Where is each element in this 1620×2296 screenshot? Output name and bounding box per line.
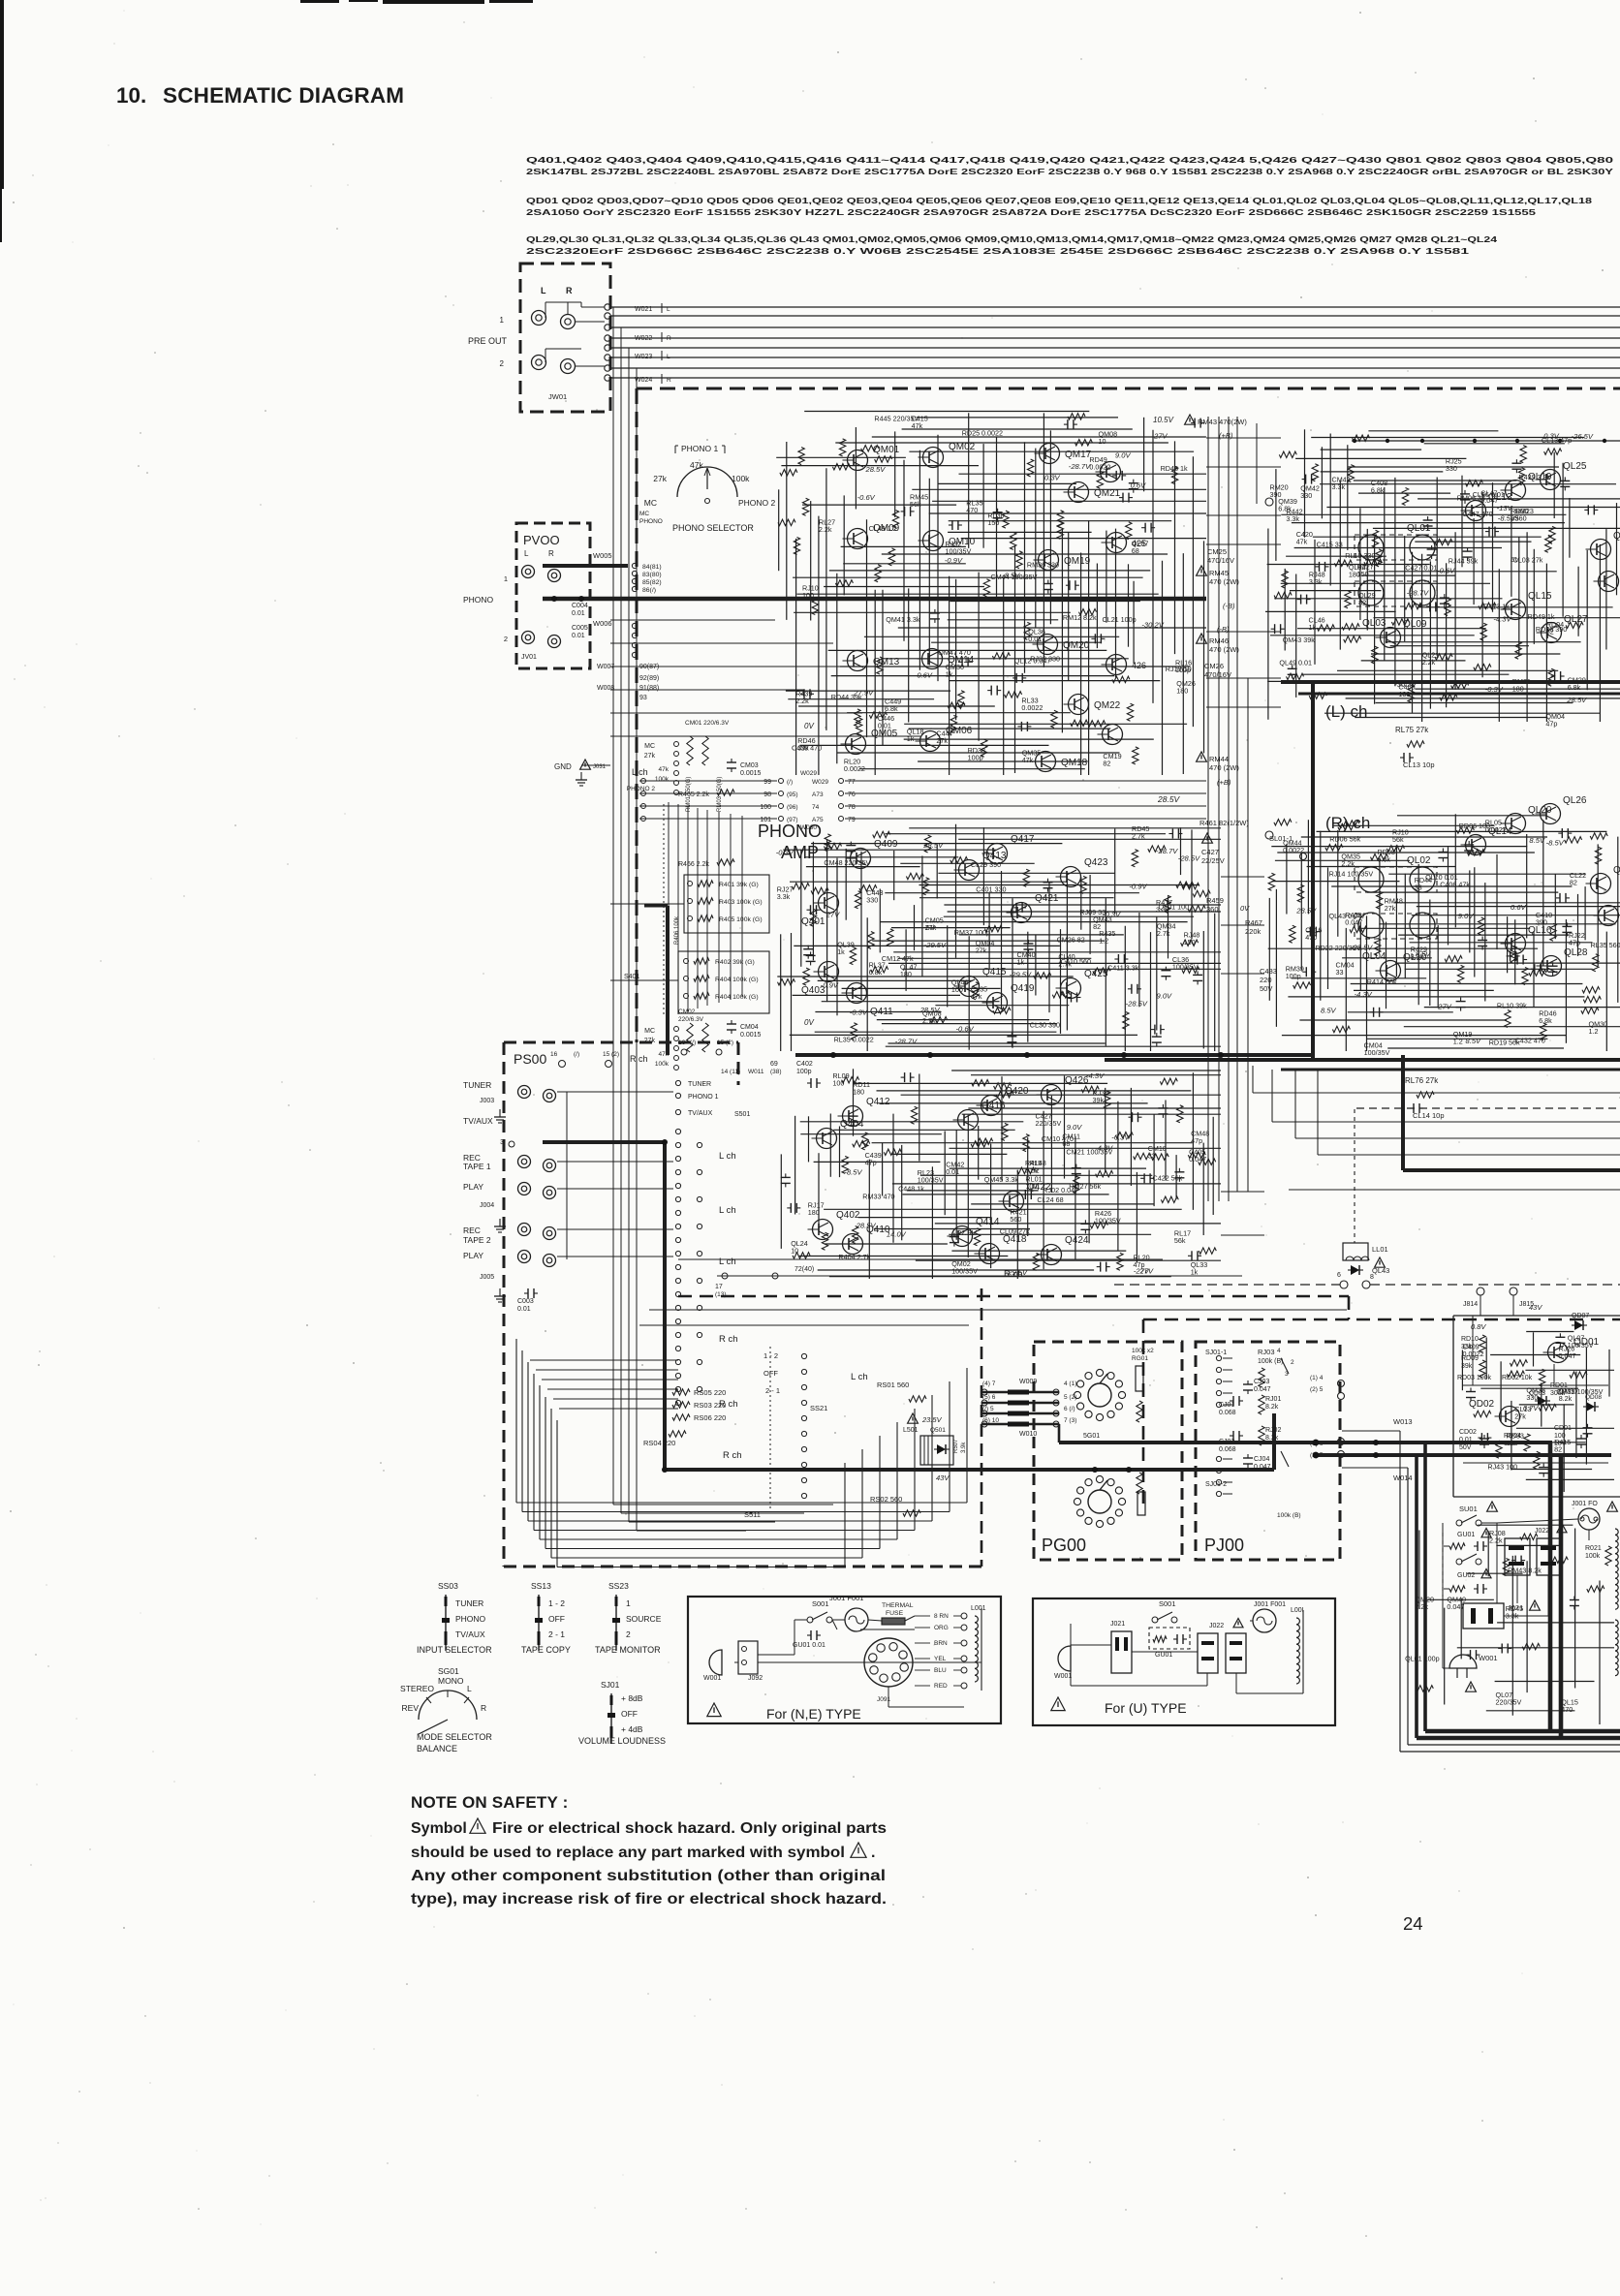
svg-text:C427 0.01: C427 0.01	[1405, 564, 1437, 573]
svg-text:27k: 27k	[976, 946, 987, 955]
svg-text:Q412: Q412	[866, 1097, 890, 1107]
svg-text:RM12 8.2k: RM12 8.2k	[1063, 613, 1097, 622]
svg-text:2SC2320EorF 2SD666C: 2SC2320EorF 2SD666C 2SB646C 2SC2238 0.Y …	[526, 246, 1469, 256]
svg-text:-4.3V: -4.3V	[1355, 990, 1373, 999]
svg-text:8.5V: 8.5V	[1321, 1006, 1337, 1014]
svg-text:OFF: OFF	[548, 1614, 565, 1624]
svg-text:22/25V: 22/25V	[1201, 856, 1225, 865]
svg-text:TUNER: TUNER	[455, 1598, 483, 1608]
svg-text:C406 47k: C406 47k	[1440, 880, 1470, 888]
svg-text:R459: R459	[1206, 896, 1224, 905]
svg-text:RG01: RG01	[1132, 1355, 1148, 1362]
svg-text:9.0V: 9.0V	[1067, 1123, 1083, 1132]
svg-text:82: 82	[1103, 760, 1110, 768]
svg-text:R413 1k: R413 1k	[1483, 603, 1510, 611]
svg-text:-28.5V: -28.5V	[1351, 944, 1373, 952]
svg-text:(6) 10: (6) 10	[982, 1417, 999, 1424]
svg-text:Q419: Q419	[1011, 983, 1035, 994]
svg-text:CM48 220/35V: CM48 220/35V	[824, 858, 870, 867]
svg-text:180: 180	[900, 970, 912, 978]
svg-text:47k: 47k	[659, 766, 670, 773]
svg-text:33: 33	[1415, 883, 1422, 891]
svg-text:RD48 1k: RD48 1k	[1161, 464, 1188, 473]
svg-text:R406 100k: R406 100k	[674, 915, 680, 945]
svg-text:-0.3V: -0.3V	[776, 848, 794, 856]
svg-text:W013: W013	[1393, 1417, 1413, 1426]
svg-text:470: 470	[966, 506, 978, 514]
svg-text:56k: 56k	[1174, 1236, 1186, 1245]
svg-text:CJ01: CJ01	[1219, 1402, 1234, 1409]
svg-text:S511: S511	[744, 1510, 761, 1519]
svg-text:8 RN: 8 RN	[934, 1613, 949, 1620]
svg-text:27V: 27V	[1153, 432, 1168, 441]
svg-text:R402 39k (G): R402 39k (G)	[715, 959, 755, 966]
svg-text:REC: REC	[463, 1226, 481, 1235]
svg-text:10: 10	[1099, 437, 1106, 446]
svg-text:180: 180	[853, 1087, 864, 1096]
svg-text:RJ02: RJ02	[1265, 1427, 1281, 1434]
svg-text:MC: MC	[639, 511, 649, 517]
svg-text:-26.5V: -26.5V	[1572, 432, 1594, 441]
svg-text:C427: C427	[1201, 848, 1219, 856]
svg-text:W029: W029	[812, 779, 828, 786]
svg-text:JW01: JW01	[548, 392, 567, 401]
svg-text:-29.5V: -29.5V	[924, 941, 947, 949]
svg-text:W022-: W022-	[635, 335, 655, 342]
svg-text:330: 330	[1300, 491, 1312, 500]
svg-text:1: 1	[504, 574, 508, 583]
svg-text:0V: 0V	[804, 1018, 814, 1027]
svg-text:9.0V: 9.0V	[1157, 992, 1173, 1001]
svg-text:QL30: QL30	[1613, 865, 1620, 876]
svg-text:CL24 68: CL24 68	[1037, 1195, 1063, 1204]
svg-text:78: 78	[848, 804, 856, 811]
svg-text:W011: W011	[748, 1069, 764, 1075]
svg-text:-0.6V: -0.6V	[1437, 567, 1455, 575]
svg-text:QM22: QM22	[1094, 700, 1121, 711]
svg-text:(5) 6: (5) 6	[982, 1394, 996, 1401]
svg-text:PHONO: PHONO	[455, 1614, 486, 1624]
svg-text:2.2k: 2.2k	[819, 525, 832, 534]
svg-text:C447 470: C447 470	[1462, 510, 1492, 518]
svg-text:1.2: 1.2	[1589, 1027, 1599, 1036]
svg-text:S501: S501	[734, 1111, 750, 1118]
svg-text:90(87): 90(87)	[639, 664, 659, 670]
svg-text:TV/AUX: TV/AUX	[463, 1116, 493, 1126]
svg-text:QM41 3.3k: QM41 3.3k	[886, 615, 920, 624]
svg-text:R: R	[548, 549, 554, 558]
svg-text:R461 82(1/2W): R461 82(1/2W)	[1199, 819, 1249, 827]
svg-text:CM25: CM25	[1207, 547, 1227, 556]
svg-text:0.01: 0.01	[517, 1306, 531, 1313]
svg-text:3.9k: 3.9k	[961, 1442, 967, 1453]
svg-text:2: 2	[626, 1629, 631, 1639]
svg-text:J022: J022	[1209, 1623, 1224, 1629]
svg-text:4: 4	[1277, 1348, 1281, 1354]
svg-text:100: 100	[951, 985, 963, 994]
svg-text:R414 56k: R414 56k	[1367, 977, 1397, 986]
svg-text:R404 100k (G): R404 100k (G)	[715, 977, 759, 983]
svg-text:W021: W021	[635, 306, 652, 313]
svg-text:82: 82	[1570, 879, 1577, 887]
svg-text:8.5V: 8.5V	[1466, 1037, 1482, 1045]
svg-text:-0.9V: -0.9V	[945, 556, 963, 565]
svg-text:100k (B): 100k (B)	[1277, 1512, 1301, 1519]
svg-text:(4) 7: (4) 7	[982, 1381, 996, 1387]
svg-text:CL13 10p: CL13 10p	[1403, 760, 1435, 769]
svg-text:CL30 390: CL30 390	[1030, 1020, 1060, 1029]
svg-text:J814: J814	[1463, 1301, 1478, 1308]
svg-text:CL09 27k: CL09 27k	[1000, 1227, 1030, 1236]
svg-text:220/35V: 220/35V	[1496, 1698, 1522, 1707]
svg-text:100p: 100p	[1286, 972, 1301, 980]
svg-text:390: 390	[1536, 918, 1547, 927]
svg-text:L: L	[467, 1684, 472, 1693]
svg-text:(/): (/)	[787, 779, 793, 786]
svg-text:.: .	[871, 1845, 875, 1861]
svg-text:R: R	[566, 286, 573, 295]
svg-text:SOURCE: SOURCE	[626, 1614, 662, 1624]
svg-text:(R) ch: (R) ch	[1325, 814, 1370, 832]
svg-text:QL15: QL15	[1528, 591, 1552, 602]
svg-text:PHONO: PHONO	[463, 595, 494, 605]
svg-text:82: 82	[1093, 922, 1101, 931]
svg-text:MONO: MONO	[438, 1676, 464, 1686]
svg-text:100/35V: 100/35V	[951, 1267, 978, 1276]
svg-text:-4.3V: -4.3V	[1493, 615, 1511, 624]
svg-text:W005: W005	[593, 551, 612, 560]
svg-text:-28.7V: -28.7V	[1156, 847, 1178, 855]
svg-text:L ch: L ch	[719, 1257, 736, 1267]
svg-text:Fire or electrical shock hazar: Fire or electrical shock hazard. Only or…	[492, 1820, 887, 1837]
svg-text:17: 17	[715, 1284, 723, 1290]
svg-text:C401 330: C401 330	[976, 884, 1006, 893]
svg-text:27k: 27k	[1514, 1412, 1526, 1421]
svg-text:3.3k: 3.3k	[1332, 482, 1346, 491]
svg-text:6.8k: 6.8k	[869, 968, 883, 977]
svg-text:99: 99	[763, 779, 771, 786]
svg-text:W024: W024	[635, 377, 652, 384]
svg-text:27V: 27V	[826, 911, 840, 919]
svg-text:82: 82	[1554, 1444, 1562, 1453]
svg-text:PHONO SELECTOR: PHONO SELECTOR	[672, 523, 754, 533]
svg-text:MC: MC	[644, 743, 655, 750]
svg-text:SU01: SU01	[1459, 1505, 1478, 1513]
svg-text:100k (B): 100k (B)	[1258, 1358, 1283, 1365]
svg-text:(/): (/)	[574, 1051, 579, 1058]
svg-text:CM12 47k: CM12 47k	[882, 954, 914, 963]
svg-text:470: 470	[1305, 933, 1317, 942]
svg-text:0.068: 0.068	[1219, 1446, 1236, 1453]
svg-text:28.5V: 28.5V	[865, 465, 887, 474]
svg-text:0.0022: 0.0022	[1089, 462, 1110, 471]
svg-text:L: L	[667, 306, 670, 313]
svg-text:(1) 4: (1) 4	[1310, 1375, 1324, 1381]
svg-text:(L) ch: (L) ch	[1325, 702, 1367, 721]
svg-text:J092: J092	[748, 1675, 763, 1682]
svg-text:QD07: QD07	[1572, 1313, 1589, 1319]
svg-text:6.8k: 6.8k	[1539, 1016, 1552, 1025]
svg-text:2.2k: 2.2k	[795, 697, 809, 705]
svg-text:SJ01-1: SJ01-1	[1205, 1350, 1227, 1356]
svg-text:L: L	[541, 286, 546, 295]
svg-text:1k: 1k	[1191, 1268, 1199, 1277]
svg-text:J001 FO: J001 FO	[1572, 1501, 1598, 1507]
svg-text:RM33 470: RM33 470	[862, 1192, 894, 1200]
svg-text:C422 56k: C422 56k	[1153, 1174, 1183, 1183]
svg-text:1k: 1k	[837, 947, 845, 956]
svg-text:1 - 2: 1 - 2	[548, 1598, 565, 1608]
svg-text:TUNER: TUNER	[688, 1081, 711, 1088]
svg-text:W008: W008	[597, 685, 614, 692]
svg-text:(13): (13)	[715, 1291, 727, 1298]
svg-text:68: 68	[1132, 546, 1139, 555]
svg-text:BALANCE: BALANCE	[417, 1744, 457, 1753]
svg-text:QL01 100p: QL01 100p	[1405, 1655, 1440, 1663]
svg-text:2.7k: 2.7k	[1157, 929, 1170, 938]
svg-text:27k: 27k	[653, 474, 667, 483]
svg-text:Q424: Q424	[1065, 1235, 1089, 1246]
svg-text:390: 390	[1270, 490, 1282, 499]
svg-text:QL26: QL26	[1563, 795, 1587, 806]
svg-text:RM06 33: RM06 33	[1457, 494, 1485, 503]
svg-text:0.01: 0.01	[946, 1167, 959, 1176]
svg-text:TAPE 2: TAPE 2	[463, 1235, 491, 1245]
svg-text:3.3k: 3.3k	[1309, 577, 1323, 586]
svg-text:-8.5V: -8.5V	[1546, 838, 1565, 847]
svg-text:PLAY: PLAY	[463, 1251, 483, 1260]
svg-text:-0.3V: -0.3V	[850, 1008, 868, 1016]
svg-text:ORG: ORG	[934, 1625, 949, 1631]
svg-text:PHONO: PHONO	[758, 822, 822, 841]
svg-text:L00I: L00I	[1291, 1607, 1304, 1614]
svg-text:220: 220	[1260, 976, 1272, 984]
svg-text:3: 3	[1285, 1371, 1289, 1378]
svg-text:-29.5V: -29.5V	[1010, 971, 1032, 979]
svg-text:MODE SELECTOR: MODE SELECTOR	[417, 1732, 492, 1742]
svg-text:28.5V: 28.5V	[919, 1006, 941, 1014]
svg-text:R ch: R ch	[630, 1054, 648, 1064]
svg-text:470 (2W): 470 (2W)	[1209, 577, 1239, 586]
svg-text:-28.7V: -28.7V	[1069, 462, 1091, 471]
svg-text:RL15 330: RL15 330	[1345, 551, 1375, 560]
svg-text:CM04: CM04	[740, 1024, 759, 1031]
svg-text:L ch: L ch	[632, 767, 648, 777]
svg-text:R507: R507	[953, 1439, 959, 1453]
svg-text:0V: 0V	[804, 722, 814, 730]
svg-text:47k: 47k	[971, 992, 982, 1001]
svg-text:THERMAL: THERMAL	[882, 1602, 914, 1609]
svg-text:360: 360	[1206, 905, 1219, 914]
svg-text:RD25 0.0022: RD25 0.0022	[962, 429, 1003, 438]
svg-text:83(80): 83(80)	[642, 572, 662, 578]
svg-text:180: 180	[1512, 685, 1524, 694]
svg-text:CL14 10p: CL14 10p	[1413, 1111, 1445, 1120]
svg-text:STEREO: STEREO	[400, 1684, 434, 1693]
svg-text:28.5V: 28.5V	[856, 1222, 877, 1230]
svg-text:-0.3V: -0.3V	[1111, 1133, 1130, 1142]
svg-text:43V: 43V	[936, 1474, 950, 1482]
svg-text:RED: RED	[934, 1683, 948, 1690]
svg-text:27V: 27V	[1139, 1267, 1154, 1276]
svg-text:47p: 47p	[1569, 938, 1580, 946]
svg-text:W001: W001	[1054, 1673, 1072, 1680]
svg-text:0.01: 0.01	[1459, 1437, 1473, 1443]
svg-text:GU01 0.01: GU01 0.01	[793, 1642, 826, 1649]
svg-text:W007: W007	[597, 664, 614, 670]
svg-text:100k: 100k	[732, 474, 750, 483]
svg-text:GND: GND	[554, 762, 572, 771]
svg-text:J004: J004	[480, 1202, 494, 1209]
svg-text:0.6V: 0.6V	[1131, 481, 1147, 490]
svg-text:0.0015: 0.0015	[740, 1032, 762, 1039]
svg-text:type), may increase risk o: type), may increase risk of fire or elec…	[411, 1891, 887, 1908]
svg-text:RD02 10k: RD02 10k	[1502, 1375, 1533, 1381]
svg-text:R ch: R ch	[719, 1334, 738, 1345]
svg-text:SS03: SS03	[438, 1581, 458, 1591]
svg-text:Q414: Q414	[976, 1217, 1000, 1227]
svg-text:47k: 47k	[1296, 537, 1308, 545]
svg-text:C433: C433	[1260, 967, 1277, 976]
svg-text:3: 3	[500, 1139, 504, 1146]
svg-text:CM01 220/6.3V: CM01 220/6.3V	[685, 720, 730, 727]
svg-text:330: 330	[1526, 1393, 1538, 1402]
svg-text:PHONO 1: PHONO 1	[688, 1094, 719, 1101]
svg-text:-8.5V: -8.5V	[1002, 572, 1020, 580]
svg-text:RL35 560: RL35 560	[1591, 941, 1620, 949]
svg-text:2SK147BL 2SJ72BL 2SC: 2SK147BL 2SJ72BL 2SC2240BL 2SA970BL 2SA8…	[526, 167, 1613, 176]
svg-text:QM45 3.3k: QM45 3.3k	[984, 1175, 1019, 1184]
svg-text:Any other component substit: Any other component substitution (other …	[411, 1868, 886, 1884]
svg-text:TAPE COPY: TAPE COPY	[521, 1645, 571, 1655]
svg-text:Symbol: Symbol	[411, 1820, 467, 1837]
svg-text:76: 76	[848, 791, 856, 798]
svg-text:SL01-1: SL01-1	[1269, 834, 1293, 843]
svg-text:QL28: QL28	[1564, 947, 1588, 958]
svg-text:J021: J021	[1508, 1603, 1523, 1612]
svg-text:1k: 1k	[946, 670, 953, 679]
svg-text:100/35V: 100/35V	[1095, 1216, 1121, 1225]
svg-text:RJ01: RJ01	[1265, 1396, 1281, 1403]
svg-text:JV01: JV01	[521, 654, 537, 661]
svg-text:L001: L001	[971, 1605, 986, 1612]
svg-text:RM36 330: RM36 330	[1027, 560, 1059, 569]
svg-text:2.7k: 2.7k	[1058, 960, 1072, 969]
svg-text:6.8k: 6.8k	[885, 704, 898, 713]
svg-text:27k: 27k	[644, 753, 656, 760]
svg-text:2: 2	[1291, 1359, 1294, 1366]
svg-text:9.0V: 9.0V	[1115, 451, 1132, 460]
svg-text:69: 69	[770, 1061, 778, 1068]
svg-text:RS04 220: RS04 220	[643, 1439, 675, 1447]
svg-text:0.0015: 0.0015	[740, 770, 762, 777]
svg-text:Q421: Q421	[1035, 893, 1059, 904]
svg-text:39k: 39k	[797, 744, 809, 753]
svg-text:CM26 82: CM26 82	[1057, 936, 1085, 945]
svg-text:W006: W006	[593, 619, 612, 628]
svg-text:S001: S001	[1159, 1599, 1176, 1608]
svg-text:(2) 5: (2) 5	[1310, 1386, 1324, 1393]
svg-text:9.0V: 9.0V	[1458, 912, 1475, 920]
svg-text:16: 16	[550, 1051, 558, 1058]
svg-text:CJ03: CJ03	[1254, 1379, 1269, 1385]
svg-text:56k: 56k	[1392, 835, 1404, 844]
svg-text:27k: 27k	[925, 923, 937, 932]
svg-text:Q415: Q415	[982, 967, 1007, 977]
svg-text:-30.2V: -30.2V	[1141, 620, 1164, 629]
svg-text:QM02: QM02	[949, 442, 976, 452]
svg-text:R404 2.7k: R404 2.7k	[838, 1253, 870, 1261]
svg-text:PHONO: PHONO	[639, 518, 663, 525]
svg-text:100/35V: 100/35V	[1568, 1341, 1594, 1350]
svg-text:150: 150	[1357, 570, 1369, 578]
svg-text:84(81): 84(81)	[642, 564, 662, 571]
svg-text:2.7k: 2.7k	[922, 1016, 936, 1025]
svg-text:RJ03: RJ03	[1258, 1348, 1275, 1356]
svg-text:10.5V: 10.5V	[1153, 416, 1174, 424]
svg-text:33: 33	[1148, 1151, 1156, 1160]
svg-text:8.2k: 8.2k	[1265, 1435, 1279, 1442]
svg-text:0.0022: 0.0022	[1485, 825, 1507, 834]
svg-text:TAPE 1: TAPE 1	[463, 1162, 491, 1171]
svg-text:0.047: 0.047	[1189, 1155, 1206, 1164]
svg-text:J001 F001: J001 F001	[1254, 1601, 1286, 1608]
svg-text:98: 98	[763, 791, 771, 798]
svg-text:RJ44 39k: RJ44 39k	[1449, 557, 1479, 566]
svg-text:1 - 2: 1 - 2	[763, 1351, 778, 1360]
svg-text:0.01: 0.01	[878, 722, 891, 730]
svg-text:RJ19 10: RJ19 10	[1166, 665, 1192, 673]
svg-text:8.2k: 8.2k	[1265, 1404, 1279, 1411]
svg-text:CD02: CD02	[1459, 1429, 1477, 1436]
svg-text:100p: 100p	[968, 754, 983, 762]
svg-text:RS05 220: RS05 220	[694, 1388, 726, 1397]
svg-text:C411 3.3k: C411 3.3k	[1107, 963, 1139, 972]
svg-text:C005: C005	[572, 625, 588, 632]
svg-text:2: 2	[504, 635, 508, 643]
svg-text:C004: C004	[572, 603, 588, 609]
svg-text:Q402: Q402	[836, 1210, 860, 1221]
svg-text:Q423: Q423	[1084, 857, 1108, 868]
svg-text:W023: W023	[635, 354, 652, 360]
svg-text:47k: 47k	[1022, 756, 1034, 764]
svg-text:GU01: GU01	[1457, 1532, 1475, 1538]
svg-text:PG00: PG00	[1042, 1536, 1086, 1555]
svg-text:82: 82	[1358, 598, 1366, 606]
svg-text:1k: 1k	[1309, 623, 1317, 632]
svg-text:0.0022: 0.0022	[1021, 703, 1043, 712]
svg-text:-28.5V: -28.5V	[1178, 854, 1200, 863]
svg-text:TAPE MONITOR: TAPE MONITOR	[595, 1645, 661, 1655]
svg-text:0V: 0V	[1240, 904, 1250, 913]
svg-text:QL25: QL25	[1563, 461, 1587, 472]
svg-text:R465 2.2k: R465 2.2k	[678, 791, 709, 798]
svg-text:100: 100	[832, 1078, 844, 1087]
svg-text:2 - 1: 2 - 1	[548, 1629, 565, 1639]
svg-text:CL29 390: CL29 390	[971, 860, 1001, 869]
svg-text:1k: 1k	[907, 734, 915, 743]
svg-text:CM26: CM26	[1204, 662, 1224, 670]
svg-text:93: 93	[639, 695, 647, 701]
svg-text:PVOO: PVOO	[523, 533, 560, 547]
svg-text:4 (1): 4 (1)	[1064, 1381, 1076, 1387]
svg-text:47p: 47p	[1545, 720, 1557, 729]
svg-text:Q404: Q404	[840, 1119, 864, 1130]
svg-text:470 (2W): 470 (2W)	[1209, 763, 1239, 772]
svg-text:J022: J022	[1535, 1528, 1549, 1535]
svg-text:S001: S001	[812, 1599, 829, 1608]
svg-text:47p: 47p	[1191, 1136, 1202, 1145]
